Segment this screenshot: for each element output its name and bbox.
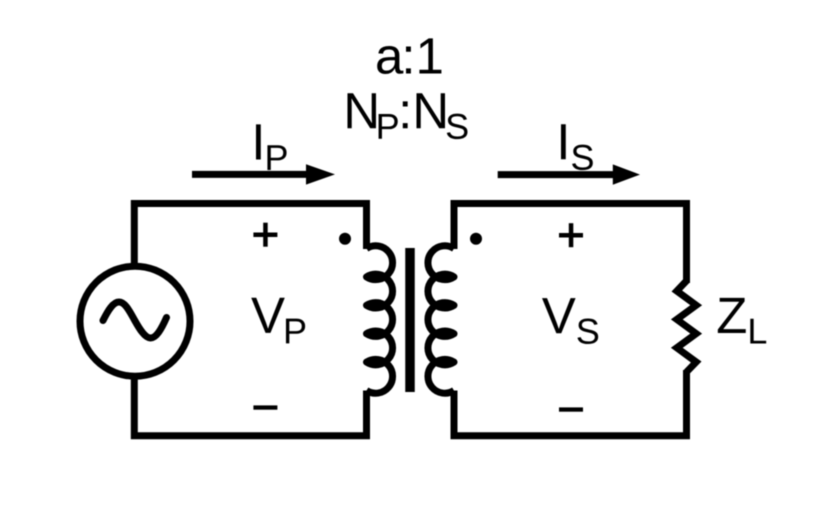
label ZL bbox=[718, 298, 766, 344]
wire secondary loop bottom bbox=[454, 370, 687, 436]
minus sign secondary bbox=[559, 407, 583, 411]
label IP bbox=[256, 124, 287, 170]
source V1 AC sine source circle bbox=[80, 266, 190, 376]
label VS bbox=[542, 298, 598, 344]
label VP bbox=[251, 298, 305, 344]
transformer T1 core bbox=[405, 248, 415, 392]
wire secondary loop top bbox=[454, 204, 687, 284]
plus sign primary bbox=[253, 223, 277, 247]
label NP:NS turns ratio bbox=[347, 93, 467, 139]
transformer T1 secondary winding bbox=[428, 246, 454, 393]
transformer dot secondary bbox=[470, 233, 482, 245]
minus sign primary bbox=[253, 405, 277, 409]
plus sign secondary bbox=[559, 223, 583, 247]
label a:1 bbox=[377, 38, 441, 74]
wire primary loop bottom bbox=[134, 330, 366, 436]
arrow IS current direction bbox=[498, 164, 640, 184]
arrow IP current direction bbox=[192, 164, 335, 184]
resistor ZL zigzag bbox=[677, 281, 696, 372]
wire primary loop bbox=[134, 204, 366, 331]
transformer T1 primary winding bbox=[367, 246, 393, 393]
transformer dot primary bbox=[339, 233, 351, 245]
label IS bbox=[561, 124, 593, 170]
source V1 sine wave bbox=[103, 302, 167, 338]
